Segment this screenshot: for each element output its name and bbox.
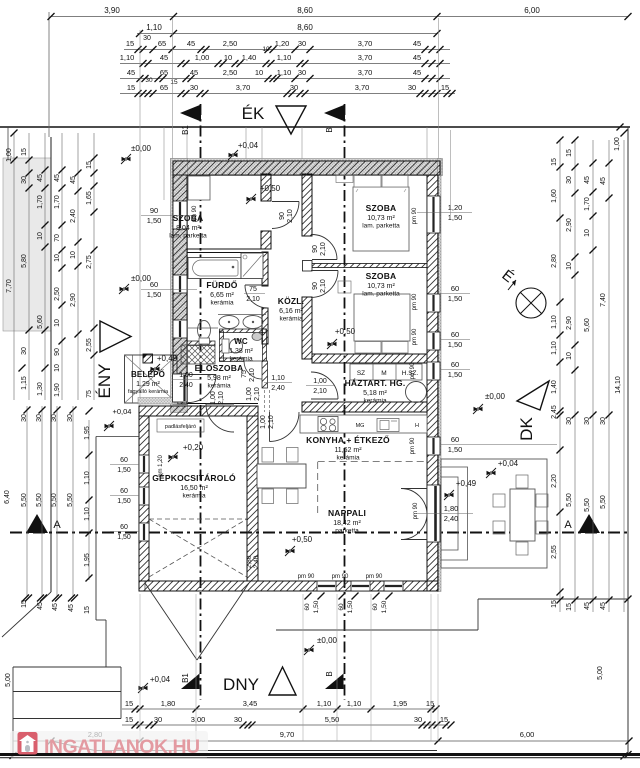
svg-text:H: H — [415, 423, 419, 429]
svg-text:pm 90: pm 90 — [192, 205, 198, 222]
svg-text:15: 15 — [125, 699, 133, 708]
svg-text:±0,00: ±0,00 — [485, 392, 506, 401]
svg-text:1,00: 1,00 — [260, 415, 267, 429]
svg-text:90: 90 — [312, 245, 319, 253]
svg-text:pm 90: pm 90 — [366, 574, 383, 580]
svg-text:1,50: 1,50 — [448, 294, 463, 303]
svg-text:lam. parketta: lam. parketta — [362, 291, 400, 298]
svg-text:60: 60 — [451, 360, 459, 369]
svg-text:1,00: 1,00 — [614, 137, 621, 151]
svg-text:5,50: 5,50 — [21, 493, 28, 507]
svg-text:60: 60 — [451, 284, 459, 293]
svg-text:+0,04: +0,04 — [113, 407, 132, 416]
svg-text:kerámia: kerámia — [182, 493, 206, 500]
svg-text:2,90: 2,90 — [566, 316, 573, 330]
svg-text:15: 15 — [170, 79, 178, 86]
svg-text:3,70: 3,70 — [358, 53, 373, 62]
svg-text:10: 10 — [37, 232, 44, 240]
svg-text:2,50: 2,50 — [54, 287, 61, 301]
svg-text:1,00: 1,00 — [179, 372, 193, 379]
svg-text:KONYHA + ÉTKEZŐ: KONYHA + ÉTKEZŐ — [306, 434, 390, 445]
svg-text:+0,50: +0,50 — [260, 184, 281, 193]
svg-text:1,95: 1,95 — [393, 699, 408, 708]
svg-text:B1: B1 — [181, 673, 190, 683]
svg-text:75: 75 — [241, 370, 248, 378]
svg-text:A: A — [564, 519, 572, 531]
svg-text:60: 60 — [120, 457, 128, 464]
svg-text:KÖZL.: KÖZL. — [278, 296, 305, 306]
svg-text:30: 30 — [36, 414, 43, 422]
svg-text:10,73 m²: 10,73 m² — [367, 215, 395, 222]
svg-text:DK: DK — [517, 417, 536, 441]
svg-text:15: 15 — [125, 715, 133, 724]
svg-text:45: 45 — [413, 39, 421, 48]
svg-text:2,40: 2,40 — [179, 382, 193, 389]
svg-text:1,20: 1,20 — [448, 203, 463, 212]
svg-text:1,10: 1,10 — [277, 68, 292, 77]
svg-text:B1: B1 — [181, 125, 190, 135]
svg-text:30: 30 — [298, 68, 306, 77]
svg-text:45: 45 — [37, 602, 44, 610]
svg-text:2,10: 2,10 — [268, 415, 275, 429]
svg-text:lam. parketta: lam. parketta — [169, 233, 207, 240]
svg-text:kerámia: kerámia — [363, 398, 387, 405]
svg-text:+0,04: +0,04 — [150, 675, 171, 684]
svg-text:30: 30 — [67, 414, 74, 422]
svg-text:1,10: 1,10 — [317, 699, 332, 708]
svg-text:30: 30 — [298, 39, 306, 48]
svg-text:3,70: 3,70 — [358, 39, 373, 48]
svg-text:1,80: 1,80 — [444, 504, 459, 513]
svg-text:16,50 m²: 16,50 m² — [180, 485, 208, 492]
svg-text:kerámia: kerámia — [336, 455, 360, 462]
svg-text:45: 45 — [37, 174, 44, 182]
svg-text:1,70: 1,70 — [584, 197, 591, 211]
svg-text:1,10: 1,10 — [120, 53, 135, 62]
svg-text:MG: MG — [356, 423, 365, 429]
svg-text:2,75: 2,75 — [86, 255, 93, 269]
svg-text:45: 45 — [160, 53, 168, 62]
svg-text:6,65 m²: 6,65 m² — [210, 292, 234, 299]
svg-text:1,30: 1,30 — [37, 382, 44, 396]
svg-text:1,29 m²: 1,29 m² — [136, 381, 160, 388]
svg-text:45: 45 — [187, 39, 195, 48]
svg-text:lam. parketta: lam. parketta — [362, 223, 400, 230]
svg-text:A: A — [53, 519, 61, 531]
svg-text:90: 90 — [279, 212, 286, 220]
svg-text:pm 90: pm 90 — [412, 207, 418, 224]
svg-text:+0,50: +0,50 — [335, 327, 356, 336]
svg-text:5,80: 5,80 — [21, 254, 28, 268]
svg-text:8,04 m²: 8,04 m² — [176, 225, 200, 232]
svg-text:90: 90 — [312, 282, 319, 290]
svg-text:5,18 m²: 5,18 m² — [363, 390, 387, 397]
svg-text:45: 45 — [413, 68, 421, 77]
svg-text:2,10: 2,10 — [249, 368, 256, 382]
svg-text:2,50: 2,50 — [223, 39, 238, 48]
svg-text:2,40: 2,40 — [444, 514, 459, 523]
svg-text:65: 65 — [160, 83, 168, 92]
svg-text:5,50: 5,50 — [36, 493, 43, 507]
svg-text:pm 90: pm 90 — [412, 293, 418, 310]
svg-text:15: 15 — [126, 39, 134, 48]
svg-text:HÁZTART. HG.: HÁZTART. HG. — [345, 378, 406, 388]
svg-text:WC: WC — [234, 337, 248, 346]
svg-text:1,80: 1,80 — [161, 699, 176, 708]
svg-text:5,00: 5,00 — [5, 673, 12, 687]
svg-text:30: 30 — [21, 414, 28, 422]
svg-text:1,40: 1,40 — [242, 53, 257, 62]
svg-text:SZOBA: SZOBA — [366, 203, 397, 213]
svg-text:1,50: 1,50 — [117, 534, 131, 541]
svg-text:1,90: 1,90 — [54, 383, 61, 397]
svg-text:60: 60 — [120, 488, 128, 495]
svg-text:2,40: 2,40 — [253, 555, 260, 568]
svg-text:14,10: 14,10 — [615, 376, 622, 394]
svg-text:FÜRDŐ: FÜRDŐ — [206, 279, 237, 290]
svg-text:1,10: 1,10 — [277, 53, 292, 62]
svg-text:2,40: 2,40 — [70, 209, 77, 223]
svg-text:1,10: 1,10 — [347, 699, 362, 708]
svg-text:INGATLANOK.HU: INGATLANOK.HU — [44, 736, 200, 758]
svg-text:3,45: 3,45 — [243, 699, 258, 708]
svg-text:30: 30 — [143, 35, 151, 42]
svg-text:60: 60 — [304, 603, 311, 611]
svg-text:SZOBA: SZOBA — [366, 271, 397, 281]
svg-text:2,10: 2,10 — [287, 209, 294, 223]
svg-text:45: 45 — [127, 68, 135, 77]
svg-text:2,55: 2,55 — [551, 545, 558, 559]
svg-text:15: 15 — [441, 83, 449, 92]
svg-text:15: 15 — [84, 606, 91, 614]
svg-text:+0,04: +0,04 — [238, 141, 259, 150]
svg-text:30: 30 — [566, 176, 573, 184]
svg-text:2,10: 2,10 — [320, 279, 327, 293]
svg-text:1,00: 1,00 — [313, 378, 327, 385]
svg-text:10: 10 — [70, 251, 77, 259]
svg-text:75: 75 — [249, 286, 257, 293]
svg-text:1,50: 1,50 — [117, 467, 131, 474]
svg-text:DNY: DNY — [223, 675, 259, 694]
svg-text:6,40: 6,40 — [4, 490, 11, 504]
svg-text:5,98 m²: 5,98 m² — [207, 375, 231, 382]
svg-text:9,70: 9,70 — [280, 730, 295, 739]
svg-text:1,10: 1,10 — [551, 315, 558, 329]
svg-text:1,10: 1,10 — [551, 341, 558, 355]
svg-text:10: 10 — [262, 46, 270, 53]
svg-text:65: 65 — [158, 39, 166, 48]
svg-text:10: 10 — [566, 262, 573, 270]
svg-text:1,50: 1,50 — [347, 600, 354, 613]
svg-text:2,90: 2,90 — [566, 218, 573, 232]
svg-text:1,00: 1,00 — [6, 148, 13, 162]
svg-text:1,10: 1,10 — [146, 23, 162, 32]
svg-text:pm 90: pm 90 — [410, 362, 416, 379]
svg-text:fagyálló kerámia: fagyálló kerámia — [128, 389, 169, 395]
svg-text:pm 90: pm 90 — [332, 574, 349, 580]
svg-text:2,10: 2,10 — [254, 387, 261, 401]
svg-text:7,70: 7,70 — [6, 279, 13, 293]
svg-text:5,50: 5,50 — [67, 493, 74, 507]
svg-text:1,10: 1,10 — [84, 507, 91, 521]
svg-text:1,95: 1,95 — [84, 426, 91, 440]
svg-text:SZ: SZ — [357, 370, 365, 377]
svg-text:BELÉPŐ: BELÉPŐ — [131, 370, 165, 379]
svg-text:90: 90 — [150, 206, 158, 215]
svg-text:45: 45 — [413, 53, 421, 62]
svg-text:2,20: 2,20 — [551, 474, 558, 488]
svg-text:8,60: 8,60 — [297, 23, 313, 32]
svg-text:60: 60 — [338, 603, 345, 611]
svg-text:pm 90: pm 90 — [413, 502, 419, 519]
svg-text:2,10: 2,10 — [320, 242, 327, 256]
svg-text:±0,00: ±0,00 — [317, 636, 338, 645]
svg-text:GÉPKOCSITÁROLÓ: GÉPKOCSITÁROLÓ — [152, 472, 236, 483]
svg-text:15: 15 — [566, 149, 573, 157]
svg-text:B: B — [325, 127, 334, 132]
svg-text:1,38 m²: 1,38 m² — [229, 348, 253, 355]
svg-text:2,80: 2,80 — [551, 254, 558, 268]
svg-text:1,50: 1,50 — [381, 600, 388, 613]
svg-text:10: 10 — [54, 319, 61, 327]
svg-text:1,50: 1,50 — [448, 340, 463, 349]
svg-text:15: 15 — [440, 715, 448, 724]
svg-text:2,10: 2,10 — [246, 296, 260, 303]
svg-text:60: 60 — [150, 280, 158, 289]
svg-text:+0,49: +0,49 — [157, 354, 178, 363]
svg-text:45: 45 — [54, 174, 61, 182]
svg-text:5,50: 5,50 — [51, 493, 58, 507]
svg-text:30: 30 — [414, 715, 422, 724]
svg-text:6,00: 6,00 — [520, 730, 535, 739]
svg-text:30: 30 — [21, 347, 28, 355]
svg-text:75: 75 — [86, 390, 93, 398]
svg-text:1,70: 1,70 — [37, 195, 44, 209]
svg-text:NAPPALI: NAPPALI — [328, 508, 366, 518]
svg-text:1,50: 1,50 — [117, 498, 131, 505]
svg-text:10: 10 — [54, 364, 61, 372]
svg-text:1,00: 1,00 — [246, 387, 253, 401]
svg-text:10: 10 — [584, 229, 591, 237]
svg-text:15: 15 — [551, 158, 558, 166]
svg-text:2,10: 2,10 — [218, 391, 225, 405]
svg-text:2,55: 2,55 — [86, 338, 93, 352]
svg-text:1,60: 1,60 — [551, 189, 558, 203]
svg-text:M: M — [381, 370, 386, 377]
svg-text:kerámia: kerámia — [229, 356, 253, 363]
svg-text:2,50: 2,50 — [223, 68, 238, 77]
svg-text:70: 70 — [54, 234, 61, 242]
svg-text:60: 60 — [451, 330, 459, 339]
svg-text:5,50: 5,50 — [584, 498, 591, 512]
svg-text:60: 60 — [451, 435, 459, 444]
svg-text:3,70: 3,70 — [236, 83, 251, 92]
svg-text:1,00: 1,00 — [210, 391, 217, 405]
svg-text:30: 30 — [154, 715, 162, 724]
svg-text:10: 10 — [566, 352, 573, 360]
svg-text:2,90: 2,90 — [70, 293, 77, 307]
svg-text:pm 1,20: pm 1,20 — [158, 455, 164, 477]
svg-text:5,00: 5,00 — [597, 666, 604, 680]
svg-text:3,00: 3,00 — [191, 715, 206, 724]
svg-text:kerámia: kerámia — [279, 316, 303, 323]
svg-text:ÉK: ÉK — [242, 104, 265, 123]
svg-text:+0,20: +0,20 — [183, 443, 204, 452]
svg-text:7,40: 7,40 — [600, 293, 607, 307]
svg-text:1,00: 1,00 — [195, 53, 210, 62]
svg-text:1,70: 1,70 — [54, 195, 61, 209]
svg-text:1,95: 1,95 — [84, 553, 91, 567]
svg-text:±0,00: ±0,00 — [131, 274, 152, 283]
svg-text:45: 45 — [584, 176, 591, 184]
svg-text:+0,49: +0,49 — [456, 479, 477, 488]
svg-text:1,50: 1,50 — [448, 213, 463, 222]
svg-text:1,20: 1,20 — [275, 39, 290, 48]
svg-text:15: 15 — [21, 148, 28, 156]
svg-text:1,50: 1,50 — [147, 216, 162, 225]
svg-text:15: 15 — [86, 161, 93, 169]
svg-text:6,00: 6,00 — [524, 6, 540, 15]
svg-text:parketta: parketta — [335, 528, 359, 535]
svg-text:15: 15 — [21, 600, 28, 608]
svg-text:45: 45 — [68, 604, 75, 612]
svg-text:kerámia: kerámia — [210, 300, 234, 307]
svg-text:1,50: 1,50 — [313, 600, 320, 613]
svg-text:10: 10 — [54, 254, 61, 262]
svg-text:30: 30 — [190, 83, 198, 92]
svg-text:10,73 m²: 10,73 m² — [367, 283, 395, 290]
svg-text:1,10: 1,10 — [84, 471, 91, 485]
svg-text:1,50: 1,50 — [448, 370, 463, 379]
svg-text:kerámia: kerámia — [207, 383, 231, 390]
svg-text:10: 10 — [255, 68, 263, 77]
svg-text:pm 90: pm 90 — [410, 437, 416, 454]
svg-text:1,50: 1,50 — [448, 445, 463, 454]
svg-text:15: 15 — [551, 600, 558, 608]
svg-text:1,40: 1,40 — [551, 380, 558, 394]
svg-text:1,15: 1,15 — [21, 376, 28, 390]
svg-text:5,50: 5,50 — [600, 495, 607, 509]
svg-text:30: 30 — [408, 83, 416, 92]
svg-text:ÉNY: ÉNY — [95, 364, 114, 399]
svg-text:+0,50: +0,50 — [292, 535, 313, 544]
svg-text:5,60: 5,60 — [584, 318, 591, 332]
svg-text:3,90: 3,90 — [104, 6, 120, 15]
svg-text:2,10: 2,10 — [313, 388, 327, 395]
svg-text:45: 45 — [600, 177, 607, 185]
svg-text:11,62 m²: 11,62 m² — [334, 447, 362, 454]
svg-text:+0,04: +0,04 — [498, 459, 519, 468]
svg-text:1,50: 1,50 — [147, 290, 162, 299]
svg-text:pm 90: pm 90 — [298, 574, 315, 580]
svg-text:18,42 m²: 18,42 m² — [333, 520, 361, 527]
svg-text:5,50: 5,50 — [566, 493, 573, 507]
svg-text:90: 90 — [54, 348, 61, 356]
svg-text:2,40: 2,40 — [271, 385, 285, 392]
svg-text:30: 30 — [21, 176, 28, 184]
svg-text:30: 30 — [234, 715, 242, 724]
svg-text:2,80: 2,80 — [246, 555, 253, 568]
svg-text:60: 60 — [372, 603, 379, 611]
svg-text:padlásfeljáró: padlásfeljáró — [165, 424, 196, 430]
svg-text:pm 90: pm 90 — [412, 328, 418, 345]
svg-text:3,70: 3,70 — [355, 83, 370, 92]
svg-text:45: 45 — [70, 176, 77, 184]
svg-text:45: 45 — [52, 603, 59, 611]
svg-text:5,60: 5,60 — [37, 315, 44, 329]
svg-text:6,16 m²: 6,16 m² — [279, 308, 303, 315]
svg-text:30: 30 — [51, 414, 58, 422]
svg-text:8,60: 8,60 — [297, 6, 313, 15]
svg-text:±0,00: ±0,00 — [131, 144, 152, 153]
svg-text:15: 15 — [127, 83, 135, 92]
svg-text:30: 30 — [145, 77, 153, 84]
svg-text:ELŐSZOBA: ELŐSZOBA — [195, 362, 244, 373]
svg-text:1,65: 1,65 — [86, 191, 93, 205]
svg-text:2,45: 2,45 — [551, 405, 558, 419]
svg-text:3,70: 3,70 — [358, 68, 373, 77]
svg-text:1,10: 1,10 — [271, 375, 285, 382]
svg-text:SZOBA: SZOBA — [173, 213, 204, 223]
svg-text:B: B — [325, 671, 334, 676]
svg-text:15: 15 — [566, 603, 573, 611]
svg-text:60: 60 — [120, 524, 128, 531]
